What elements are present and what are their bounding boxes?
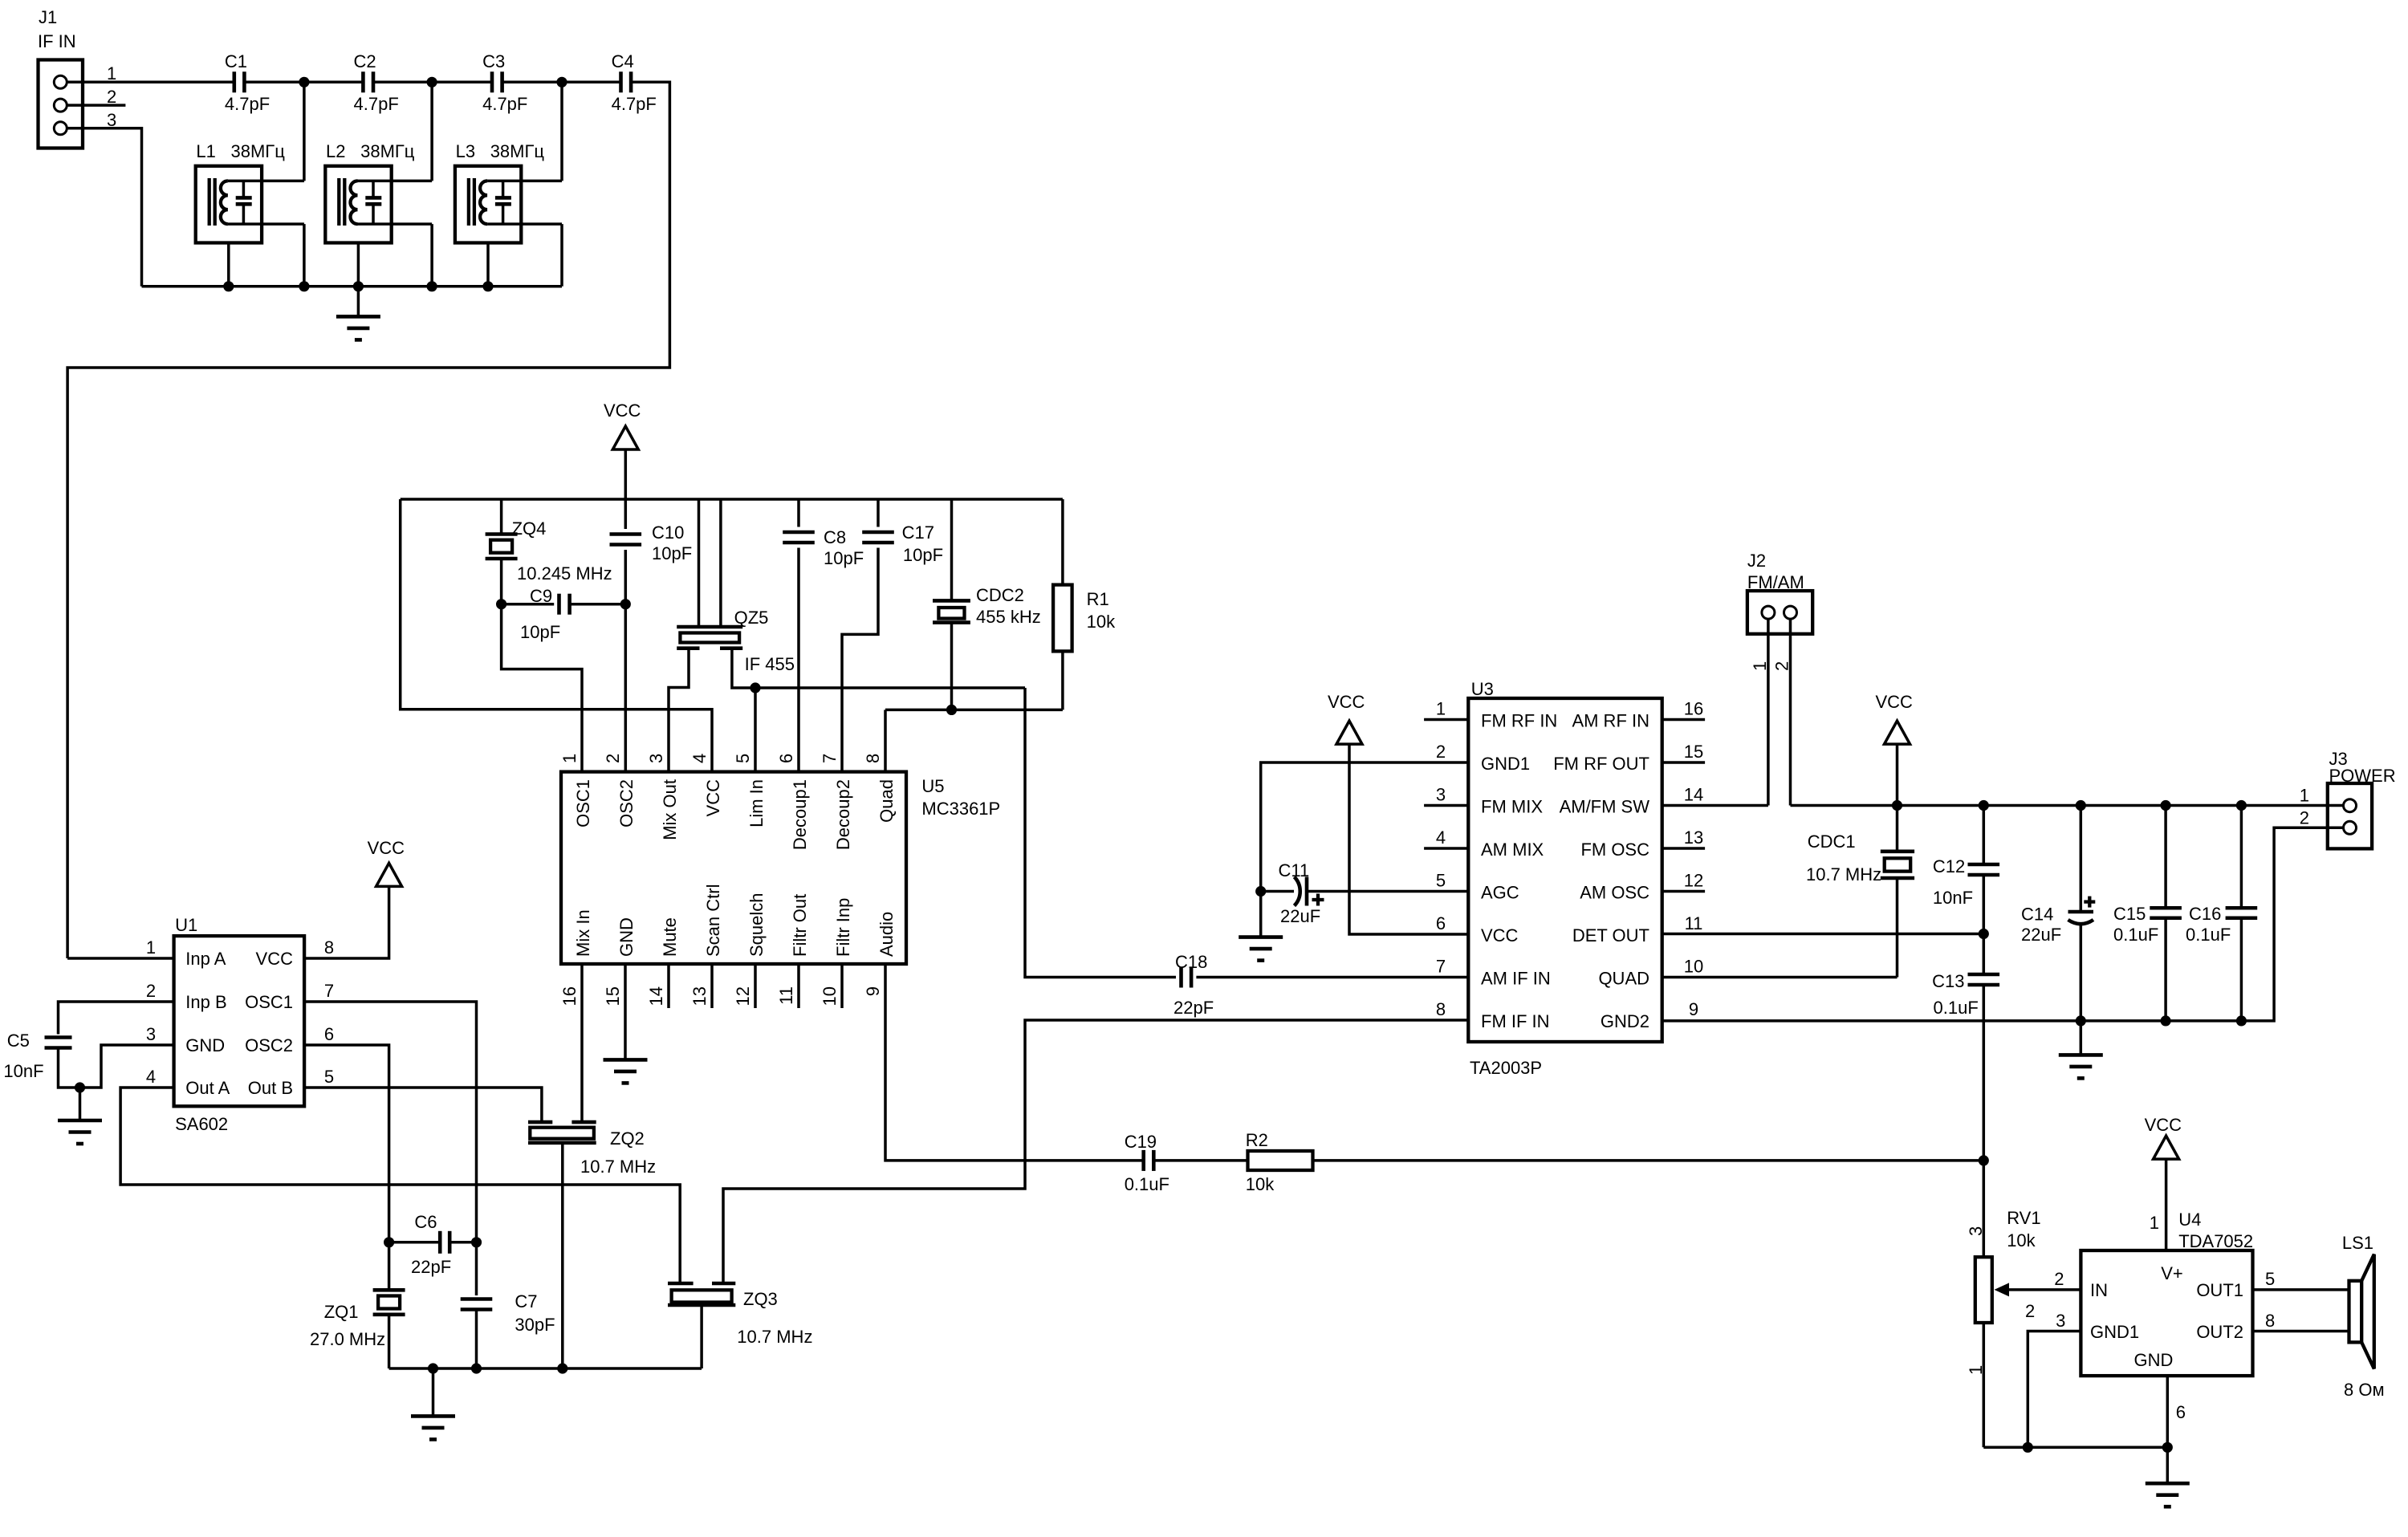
ceramic filter QZ5 IF455 (698, 499, 701, 627)
U5 unconnected pin stub (710, 964, 714, 1008)
wire VCC to U4 pin1 V+ (2165, 1159, 2168, 1250)
svg-text:C7: C7 (515, 1291, 537, 1311)
svg-text:L2: L2 (326, 141, 345, 161)
connector J2 FM/AM (1747, 591, 1812, 634)
wire U3 pin14 AM/FM SW to J2 pin1 (1662, 804, 1768, 807)
svg-text:10pF: 10pF (652, 543, 692, 563)
svg-text:IF IN: IF IN (38, 31, 76, 51)
node C6 left (384, 1237, 394, 1247)
wire rail left branch to U5 pin4 VCC (401, 499, 712, 772)
U3 unconnected pin stub (left) (1424, 804, 1468, 807)
svg-text:C4: C4 (612, 51, 634, 71)
wire R2 to RV1/C13 node (1313, 1159, 1984, 1162)
svg-text:22pF: 22pF (411, 1257, 451, 1277)
wire U4 pin5 OUT1 to LS1 (2253, 1288, 2349, 1291)
svg-text:9: 9 (1689, 999, 1698, 1019)
wire C5 to U1 pin3 GND (59, 1045, 174, 1088)
svg-text:6: 6 (324, 1024, 334, 1044)
U3 unconnected pin stub (left) (1424, 718, 1468, 722)
wire ZQ4/C9 node to U5 pin1 OSC1 (502, 604, 582, 772)
svg-text:FM IF IN: FM IF IN (1481, 1011, 1550, 1031)
svg-text:J2: J2 (1747, 551, 1766, 571)
capacitor C19 0.1uF (1141, 1150, 1145, 1171)
ceramic discriminator CDC2 455 kHz (950, 499, 954, 600)
svg-text:14: 14 (1684, 785, 1703, 805)
wire C1-C2 (244, 81, 363, 84)
svg-text:C2: C2 (354, 51, 376, 71)
capacitor C9 10pF (502, 603, 555, 606)
svg-text:Inp B: Inp B (185, 992, 226, 1012)
svg-text:AM/FM SW: AM/FM SW (1560, 797, 1650, 817)
svg-text:OSC2: OSC2 (616, 779, 637, 827)
wire QZ5 left pin to U5 pin3 Mix Out (669, 649, 689, 772)
ceramic discriminator CDC1 10.7 MHz (1896, 806, 1899, 852)
node R2/C13/RV1 junction (1979, 1155, 1989, 1165)
svg-text:VCC: VCC (2145, 1115, 2182, 1135)
svg-text:10k: 10k (1087, 612, 1116, 632)
svg-text:22pF: 22pF (1173, 998, 1214, 1018)
connector J3 POWER (2328, 783, 2372, 848)
svg-text:OSC1: OSC1 (245, 992, 293, 1012)
U3 unconnected pin stub (left) (1424, 847, 1468, 850)
capacitor C16 0.1uF (2240, 806, 2243, 909)
IC U5 MC3361P (561, 772, 906, 964)
svg-text:7: 7 (324, 981, 334, 1001)
wire U3 pin9 GND2 rail to J3 pin2 (1662, 827, 2344, 1021)
svg-text:1: 1 (1750, 661, 1770, 671)
svg-text:10.7 MHz: 10.7 MHz (580, 1157, 656, 1177)
svg-text:4.7pF: 4.7pF (225, 94, 270, 114)
svg-text:C18: C18 (1175, 952, 1207, 972)
svg-text:8: 8 (2265, 1311, 2275, 1331)
svg-text:2: 2 (2025, 1301, 2035, 1321)
inductor tank L1 38MHz (196, 166, 262, 243)
svg-text:5: 5 (733, 754, 753, 763)
ground (GND2 rail) (2059, 1055, 2103, 1078)
svg-text:15: 15 (1684, 742, 1703, 762)
svg-text:38МГц: 38МГц (490, 141, 545, 161)
crystal filter ZQ3 10.7 MHz (668, 1282, 694, 1286)
node ground rail junction (223, 281, 234, 291)
node ZQ2 bottom (557, 1363, 567, 1373)
svg-text:IF 455: IF 455 (745, 654, 795, 674)
svg-text:C14: C14 (2021, 905, 2053, 925)
ground (filter rail) (336, 316, 380, 340)
svg-text:Out B: Out B (248, 1078, 293, 1098)
wire to ground (432, 1368, 435, 1416)
svg-text:U1: U1 (175, 915, 197, 935)
wire to U5 pin5 Lim In (754, 688, 757, 772)
ground (U3 GND1) (1239, 937, 1283, 961)
wire L1 center pin to ground rail (227, 243, 230, 287)
svg-text:AM IF IN: AM IF IN (1481, 969, 1551, 989)
svg-text:C16: C16 (2189, 904, 2221, 924)
svg-text:Mix Out: Mix Out (660, 779, 680, 840)
power VCC (U5) (612, 426, 638, 449)
svg-text:1: 1 (1966, 1365, 1986, 1375)
svg-text:R1: R1 (1087, 589, 1109, 609)
svg-text:1: 1 (107, 63, 116, 83)
svg-text:OUT2: OUT2 (2196, 1322, 2243, 1342)
wire U5 pin16 Mix In to ZQ2 (580, 964, 584, 1122)
capacitor C8 10pF (797, 499, 800, 527)
svg-text:10nF: 10nF (3, 1061, 43, 1081)
U5 unconnected pin stub (754, 964, 757, 1008)
U3 unconnected pin stub (right) (1662, 847, 1705, 850)
wire to ground (79, 1088, 82, 1120)
svg-text:22uF: 22uF (1280, 906, 1320, 926)
svg-text:GND1: GND1 (1481, 754, 1530, 774)
wire VCC arrow to rail (624, 449, 628, 499)
svg-text:GND1: GND1 (2090, 1322, 2139, 1342)
power VCC (rail) (1885, 721, 1910, 744)
power VCC (U1) (376, 863, 402, 886)
wire junction column down to L1 (303, 82, 306, 181)
svg-text:14: 14 (646, 986, 666, 1006)
svg-text:10: 10 (1684, 957, 1703, 977)
svg-text:GND: GND (2134, 1350, 2174, 1370)
svg-text:AM RF IN: AM RF IN (1572, 711, 1649, 731)
capacitor C18 22pF (1179, 967, 1183, 988)
wire U5 pin15 GND down (624, 964, 627, 1059)
svg-text:10pF: 10pF (903, 545, 943, 565)
wire J1 pin2 stub (67, 104, 125, 107)
node power rail junction (2076, 800, 2086, 811)
wire J1 pin3 down to ground rail (67, 128, 142, 287)
svg-text:V+: V+ (2161, 1263, 2183, 1283)
node rail/ground (428, 1363, 438, 1373)
wire to ground symbol (357, 287, 360, 317)
wire L3 bottom to ground rail (560, 224, 563, 287)
wire J1 pin1 to C1 (67, 81, 234, 84)
power VCC (U4) (2154, 1136, 2179, 1159)
svg-text:C5: C5 (7, 1031, 30, 1051)
svg-text:SA602: SA602 (175, 1114, 228, 1134)
svg-text:FM RF IN: FM RF IN (1481, 711, 1557, 731)
svg-text:1: 1 (559, 754, 580, 763)
node ground rail junction (482, 281, 493, 291)
wire L3 top stub (487, 180, 562, 183)
node ground rail junction (353, 281, 364, 291)
svg-text:Lim In: Lim In (746, 779, 767, 827)
svg-text:Quad: Quad (877, 779, 897, 823)
svg-text:R2: R2 (1246, 1130, 1268, 1150)
node pin6/ground junction (2162, 1442, 2173, 1453)
wire U1 pin4 Out A to ZQ3 left pin (120, 1088, 680, 1283)
wire to ground (2166, 1447, 2170, 1483)
capacitor C10 10pF (624, 499, 628, 529)
svg-text:ZQ3: ZQ3 (743, 1289, 778, 1309)
inductor tank L3 38MHz (455, 166, 521, 243)
U3 unconnected pin stub (right) (1662, 890, 1705, 893)
wire L1 bottom to ground rail (303, 224, 306, 287)
svg-text:ZQ1: ZQ1 (324, 1302, 359, 1322)
wire QZ5 right pin to Lim In / C18 branch (732, 649, 1025, 688)
svg-text:Squelch: Squelch (746, 893, 767, 957)
svg-text:VCC: VCC (1876, 692, 1914, 712)
svg-text:DET OUT: DET OUT (1572, 925, 1649, 945)
node GND2 rail junction (2161, 1015, 2171, 1026)
wire C4 to U1 pin1 (long route) (67, 82, 669, 958)
ground (oscillator rail) (411, 1416, 455, 1439)
svg-text:GND2: GND2 (1601, 1011, 1649, 1031)
node DET OUT junction (1979, 929, 1989, 939)
svg-text:GND: GND (616, 917, 637, 957)
wire C11 to U3 pin5 AGC (1307, 890, 1468, 893)
svg-text:VCC: VCC (1328, 692, 1365, 712)
svg-text:RV1: RV1 (2007, 1208, 2040, 1228)
capacitor C17 10pF (877, 499, 880, 527)
svg-text:VCC: VCC (1481, 925, 1519, 945)
wire U5 pin9 Audio to C19 (885, 964, 1144, 1161)
svg-text:3: 3 (1436, 785, 1446, 805)
svg-text:C12: C12 (1933, 856, 1965, 876)
svg-text:10.7 MHz: 10.7 MHz (737, 1327, 812, 1347)
U3 unconnected pin stub (right) (1662, 718, 1705, 722)
svg-text:FM/AM: FM/AM (1747, 572, 1804, 592)
svg-text:C10: C10 (652, 522, 684, 543)
svg-text:C19: C19 (1125, 1132, 1157, 1152)
svg-text:6: 6 (776, 754, 796, 763)
svg-text:FM RF OUT: FM RF OUT (1553, 754, 1649, 774)
svg-text:7: 7 (820, 754, 840, 763)
svg-text:CDC1: CDC1 (1808, 832, 1856, 852)
svg-text:8: 8 (1436, 999, 1446, 1019)
svg-text:38МГц: 38МГц (231, 141, 286, 161)
node power rail junction (1979, 800, 1989, 811)
U5 unconnected pin stub (667, 964, 670, 1008)
wire U1 pin5 Out B to ZQ2 (304, 1088, 542, 1122)
svg-text:U5: U5 (921, 776, 944, 796)
capacitor C3 (490, 71, 494, 92)
svg-text:5: 5 (324, 1067, 334, 1087)
svg-text:VCC: VCC (368, 838, 405, 858)
svg-text:FM MIX: FM MIX (1481, 797, 1543, 817)
wire power rail to J3 pin1 (1791, 804, 2344, 807)
svg-text:2: 2 (2300, 807, 2309, 827)
svg-text:2: 2 (2054, 1269, 2064, 1289)
capacitor C13 0.1uF (1983, 934, 1986, 975)
node C9/C10/OSC2 (620, 599, 631, 609)
crystal ZQ4 10.245 MHz (500, 499, 503, 535)
wire L2 bottom to ground rail (430, 224, 433, 287)
wire C2-C3 (373, 81, 492, 84)
node ground rail junction (299, 281, 309, 291)
ground (U5 pin15) (604, 1059, 648, 1083)
svg-text:C11: C11 (1279, 860, 1310, 880)
svg-text:AM MIX: AM MIX (1481, 840, 1544, 860)
node power rail junction (1892, 800, 1902, 811)
svg-text:TA2003P: TA2003P (1470, 1058, 1542, 1078)
svg-text:VCC: VCC (256, 949, 294, 969)
svg-text:8 Ом: 8 Ом (2344, 1380, 2385, 1400)
resistor R1 10k (1061, 499, 1064, 585)
svg-text:3: 3 (646, 754, 666, 763)
svg-text:12: 12 (1684, 871, 1703, 891)
svg-text:16: 16 (1684, 699, 1703, 719)
svg-text:10k: 10k (2007, 1230, 2036, 1250)
inductor tank L2 38MHz (325, 166, 391, 243)
wire U1 pin6 OSC2 down to ZQ1 (304, 1045, 389, 1290)
wire U1 pin7 OSC1 down to C7 (304, 1002, 476, 1295)
wire ZQ3 bottom to rail (700, 1305, 703, 1368)
crystal filter ZQ2 10.7 MHz (528, 1120, 552, 1124)
wire U4 pin3 GND1 down (2028, 1332, 2081, 1448)
capacitor C15 0.1uF (2164, 806, 2167, 909)
wire VCC arrow to rail (1896, 744, 1899, 805)
svg-text:1: 1 (1436, 699, 1446, 719)
wire C13 down to R2/RV1 node (1983, 985, 1986, 1161)
svg-text:C13: C13 (1932, 971, 1964, 991)
node C7 bottom (471, 1363, 482, 1373)
node C3-C4 junction (556, 77, 567, 87)
capacitor C6 22pF (438, 1231, 442, 1254)
RV1 wiper arrow (2007, 1288, 2081, 1291)
svg-text:16: 16 (559, 986, 580, 1006)
svg-text:Mix In: Mix In (573, 909, 593, 957)
svg-text:11: 11 (1685, 913, 1703, 933)
svg-text:VCC: VCC (604, 401, 641, 421)
svg-text:2: 2 (107, 87, 116, 107)
wire C19 to R2 (1153, 1159, 1247, 1162)
svg-text:10.245 MHz: 10.245 MHz (517, 563, 612, 583)
capacitor C2 (361, 71, 365, 92)
svg-text:Out A: Out A (185, 1078, 230, 1098)
svg-text:6: 6 (2176, 1402, 2186, 1422)
svg-text:C15: C15 (2113, 904, 2146, 924)
wire VCC to U3 pin6 (1349, 744, 1468, 934)
svg-text:MC3361P: MC3361P (921, 799, 1000, 819)
svg-text:Mute: Mute (660, 917, 680, 957)
svg-text:1: 1 (146, 937, 156, 958)
U3 unconnected pin stub (right) (1662, 761, 1705, 764)
node C5/GND junction (75, 1082, 85, 1092)
svg-text:IN: IN (2090, 1280, 2108, 1300)
IC U4 TDA7052 (2081, 1250, 2252, 1376)
node GND1 junction (2023, 1442, 2033, 1453)
wire L2 center pin to ground rail (357, 243, 360, 287)
capacitor C14 22uF (polarized) (2080, 806, 2083, 913)
wire L2 bottom stub (358, 222, 433, 226)
wire to U5 pin8 Quad (884, 710, 887, 771)
svg-text:J1: J1 (39, 7, 57, 27)
svg-text:4: 4 (1436, 827, 1446, 848)
svg-text:C3: C3 (482, 51, 505, 71)
svg-text:C17: C17 (902, 522, 934, 543)
svg-text:QUAD: QUAD (1598, 969, 1649, 989)
wire to ground (2080, 1021, 2083, 1055)
svg-text:4: 4 (146, 1067, 156, 1087)
ground (U4) (2146, 1483, 2190, 1507)
svg-text:2: 2 (1436, 742, 1446, 762)
svg-text:OSC2: OSC2 (245, 1035, 293, 1055)
wire oscillator ground rail (389, 1367, 702, 1370)
wire L1 bottom stub (228, 222, 304, 226)
svg-text:4.7pF: 4.7pF (354, 94, 399, 114)
wire U1 pin1 Inp A (67, 957, 174, 960)
svg-text:C6: C6 (414, 1212, 437, 1232)
svg-text:3: 3 (107, 110, 116, 130)
wire Quad line (pin8-CDC2-R1) (885, 709, 1063, 712)
wire U1 pin2 Inp B to C5 (59, 1002, 174, 1035)
svg-text:U3: U3 (1471, 679, 1494, 699)
svg-text:C9: C9 (530, 586, 552, 606)
svg-text:LS1: LS1 (2342, 1233, 2373, 1253)
node Lim In junction (750, 682, 760, 693)
svg-text:0.1uF: 0.1uF (2113, 925, 2158, 945)
wire C18 to U3 pin7 AM IF IN (1196, 976, 1468, 979)
IC U3 TA2003P (1468, 698, 1662, 1042)
svg-text:Filtr Out: Filtr Out (790, 894, 810, 957)
svg-text:POWER: POWER (2329, 766, 2396, 786)
wire ZQ3 right pin to U3 pin8 FM IF IN (723, 1020, 1468, 1283)
svg-text:L1: L1 (196, 141, 215, 161)
svg-text:3: 3 (1966, 1226, 1986, 1236)
svg-text:27.0 MHz: 27.0 MHz (310, 1329, 385, 1349)
svg-text:U4: U4 (2178, 1210, 2201, 1230)
node C2-C3 junction (427, 77, 437, 87)
svg-text:10pF: 10pF (520, 622, 560, 642)
ground (U1) (58, 1120, 102, 1144)
svg-text:FM OSC: FM OSC (1580, 840, 1649, 860)
svg-text:0.1uF: 0.1uF (2186, 925, 2231, 945)
node C6 right (471, 1237, 482, 1247)
wire filter ground rail (142, 285, 563, 288)
svg-text:4.7pF: 4.7pF (482, 94, 527, 114)
svg-text:C1: C1 (225, 51, 247, 71)
IC U1 SA602 (174, 936, 305, 1106)
speaker LS1 8 Ohm (2349, 1281, 2362, 1343)
svg-text:L3: L3 (456, 141, 475, 161)
svg-text:4: 4 (689, 754, 710, 763)
svg-text:Audio: Audio (877, 912, 897, 957)
svg-text:0.1uF: 0.1uF (1125, 1174, 1169, 1194)
svg-text:GND: GND (185, 1035, 225, 1055)
wire U1 pin8 to VCC arrow (304, 886, 389, 958)
svg-text:8: 8 (863, 754, 883, 763)
svg-text:AGC: AGC (1481, 883, 1519, 903)
svg-text:4.7pF: 4.7pF (612, 94, 657, 114)
capacitor C11 22uF (polarized) (1261, 890, 1294, 893)
wire L2 top stub (358, 180, 433, 183)
svg-text:CDC2: CDC2 (976, 585, 1024, 605)
node ground rail junction (427, 281, 437, 291)
svg-text:5: 5 (2265, 1269, 2275, 1289)
svg-text:QZ5: QZ5 (734, 608, 769, 628)
svg-text:7: 7 (1436, 957, 1446, 977)
power VCC (U3) (1336, 721, 1362, 744)
svg-text:1: 1 (2150, 1213, 2159, 1233)
wire junction column down to L2 (430, 82, 433, 181)
capacitor C7 30pF (461, 1297, 493, 1301)
svg-text:1: 1 (2300, 786, 2309, 806)
svg-text:Decoup1: Decoup1 (790, 779, 810, 850)
capacitor C12 10nF (1983, 806, 1986, 865)
svg-text:12: 12 (733, 986, 753, 1006)
crystal ZQ1 27.0 MHz (373, 1288, 405, 1292)
svg-text:OSC1: OSC1 (573, 779, 593, 827)
svg-text:10: 10 (820, 986, 840, 1006)
svg-text:10k: 10k (1246, 1174, 1275, 1194)
svg-text:Decoup2: Decoup2 (833, 779, 853, 850)
wire L1 top stub (228, 180, 304, 183)
capacitor C4 (619, 71, 623, 92)
svg-text:22uF: 22uF (2021, 925, 2061, 945)
svg-text:C8: C8 (824, 527, 846, 547)
wire Lim In node down to C18 (1025, 688, 1176, 978)
svg-text:2: 2 (146, 981, 156, 1001)
wire J2 pin2 down to power rail (1789, 612, 1792, 805)
